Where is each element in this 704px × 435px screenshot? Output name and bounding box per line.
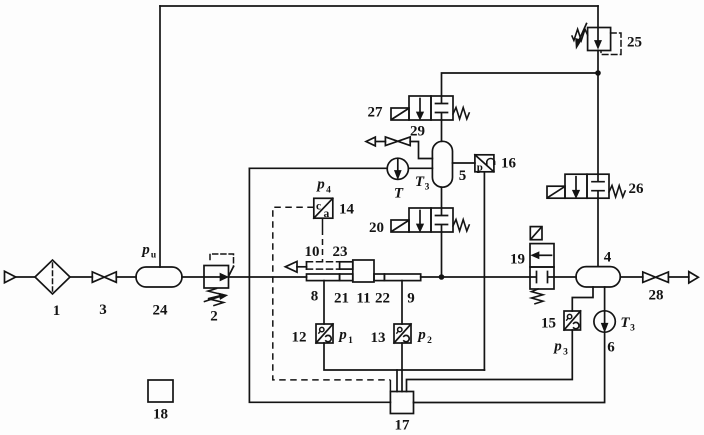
svg-text:25: 25 bbox=[627, 35, 642, 51]
transducer 15 bbox=[564, 311, 581, 330]
svg-text:17: 17 bbox=[395, 418, 411, 434]
svg-text:4: 4 bbox=[326, 186, 331, 196]
relief valve 25 bbox=[597, 6, 599, 28]
bleed valve 29 bbox=[385, 137, 410, 146]
inlet arrow bbox=[5, 271, 16, 282]
wire T-sense horizontal to gauge T bbox=[249, 167, 387, 169]
tube section 23 bbox=[340, 262, 353, 269]
valve 20 bbox=[409, 208, 431, 232]
transducer 13 bbox=[394, 324, 411, 343]
transducer 16 bbox=[475, 155, 494, 172]
wire valve 20 to main line bbox=[441, 232, 443, 277]
tube section 10 (dashed) bbox=[306, 262, 308, 269]
tube section 9 bbox=[384, 274, 420, 281]
wire vessel 5 to valve 20 bbox=[441, 187, 443, 208]
wire transducer 16 drop bbox=[483, 172, 485, 370]
node main line / valve 20 bbox=[439, 274, 445, 280]
svg-text:p: p bbox=[140, 242, 150, 258]
wire transducer 13 to DAQ 17 bbox=[401, 343, 403, 392]
vent arrow 10 bbox=[285, 261, 297, 272]
svg-text:a: a bbox=[324, 208, 330, 220]
dashed signal 14 enclosure bbox=[273, 207, 391, 380]
svg-text:29: 29 bbox=[410, 124, 425, 140]
wire thermometer 6 to DAQ 17 bbox=[414, 332, 605, 402]
wire valve 27 to vessel 5 bbox=[441, 120, 443, 141]
wire valve 19 to tank 4 bbox=[554, 276, 576, 278]
svg-text:3: 3 bbox=[630, 324, 635, 334]
wire vessel 5 to transducer 16 bbox=[453, 162, 475, 164]
dashed signal 14 to tube bbox=[322, 218, 324, 229]
svg-text:4: 4 bbox=[604, 250, 612, 266]
regulator 2 bbox=[204, 266, 229, 289]
svg-text:3: 3 bbox=[563, 348, 568, 358]
transducer 12 bbox=[316, 324, 333, 343]
svg-text:T: T bbox=[394, 186, 404, 202]
air tank 24 bbox=[136, 267, 182, 287]
wire tank 24 top riser bbox=[159, 6, 161, 267]
wire transducer 12 to DAQ 17 bbox=[324, 343, 484, 370]
wire T-sense riser (left vertical) bbox=[249, 168, 390, 402]
svg-text:c: c bbox=[316, 201, 321, 213]
svg-text:5: 5 bbox=[459, 168, 467, 184]
svg-text:18: 18 bbox=[153, 407, 168, 423]
wire top bus bbox=[160, 5, 598, 7]
wire gauge T to vessel 5 bbox=[408, 167, 432, 169]
svg-text:28: 28 bbox=[649, 288, 664, 304]
wire transducer 15 to DAQ 17 bbox=[407, 330, 573, 392]
wire inlet to filter bbox=[16, 276, 35, 278]
svg-text:6: 6 bbox=[607, 340, 615, 356]
svg-text:3: 3 bbox=[99, 302, 107, 318]
nozzle block 11 bbox=[353, 260, 374, 282]
wire valve 28 to outlet bbox=[668, 276, 688, 278]
wire regulator 2 to test tube bbox=[229, 276, 307, 278]
node pilot bus bbox=[595, 70, 601, 76]
wire valve 29 to vessel 5 bbox=[410, 142, 432, 159]
svg-text:p: p bbox=[416, 327, 426, 343]
svg-text:11: 11 bbox=[356, 291, 370, 307]
converter 14 bbox=[314, 198, 333, 218]
thermometer T bbox=[387, 158, 408, 179]
wire valve 26 to tank 4 bbox=[597, 198, 599, 266]
svg-text:23: 23 bbox=[333, 244, 348, 260]
svg-text:8: 8 bbox=[311, 289, 319, 305]
svg-text:T: T bbox=[415, 174, 425, 190]
valve 27 bbox=[409, 96, 431, 120]
svg-text:15: 15 bbox=[541, 316, 556, 332]
svg-text:19: 19 bbox=[510, 252, 525, 268]
outlet arrow bbox=[689, 272, 699, 283]
DAQ box 17 bbox=[390, 392, 413, 414]
vent arrow 29 bbox=[366, 137, 375, 146]
valve 28 bbox=[643, 272, 669, 282]
wire pilot bus node to valve 26 bbox=[597, 51, 599, 175]
svg-text:T: T bbox=[620, 315, 630, 331]
svg-text:10: 10 bbox=[305, 244, 320, 260]
svg-text:2: 2 bbox=[210, 309, 218, 325]
valve 19 bbox=[530, 244, 554, 267]
svg-text:1: 1 bbox=[348, 336, 353, 346]
svg-text:21: 21 bbox=[334, 291, 349, 307]
wire tank 4 to valve 28 bbox=[620, 276, 643, 278]
svg-text:16: 16 bbox=[501, 156, 517, 172]
wire tube tap 9 to transducer 13 bbox=[401, 281, 403, 324]
wire DAQ stub from p-bus bbox=[396, 370, 398, 392]
svg-text:p: p bbox=[552, 339, 562, 355]
svg-text:p: p bbox=[477, 161, 483, 173]
svg-text:p: p bbox=[315, 177, 325, 193]
tube section 21 bbox=[307, 274, 340, 281]
filter 1 bbox=[35, 260, 70, 294]
svg-text:12: 12 bbox=[292, 330, 307, 346]
valve 3 bbox=[92, 272, 116, 282]
tube section 22a bbox=[340, 274, 353, 281]
thermometer 6 bbox=[594, 311, 615, 332]
svg-text:9: 9 bbox=[407, 291, 415, 307]
svg-text:2: 2 bbox=[427, 336, 432, 346]
wire valve 3 to tank 24 bbox=[116, 276, 136, 278]
valve 26 bbox=[565, 174, 587, 198]
wire tank 4 to transducer 15 bbox=[572, 287, 593, 311]
vessel 5 bbox=[432, 141, 452, 187]
svg-text:13: 13 bbox=[371, 330, 386, 346]
tube section 22b bbox=[374, 274, 384, 281]
svg-text:3: 3 bbox=[425, 183, 430, 193]
svg-text:1: 1 bbox=[53, 303, 61, 319]
wire tank 24 to regulator 2 bbox=[182, 276, 204, 278]
svg-text:p: p bbox=[337, 327, 347, 343]
svg-text:u: u bbox=[151, 251, 157, 261]
svg-text:27: 27 bbox=[368, 105, 384, 121]
svg-text:24: 24 bbox=[153, 303, 169, 319]
svg-text:20: 20 bbox=[369, 220, 384, 236]
wire tube to valve 19 bbox=[421, 276, 530, 278]
svg-text:22: 22 bbox=[375, 291, 390, 307]
wire filter to valve 3 bbox=[70, 276, 92, 278]
svg-text:26: 26 bbox=[629, 181, 645, 197]
wire tank 4 to thermometer 6 bbox=[604, 287, 606, 311]
air tank 4 bbox=[576, 267, 620, 287]
wire tube tap 8 to transducer 12 bbox=[323, 281, 325, 324]
wire valve 27 top bbox=[442, 73, 599, 96]
svg-text:14: 14 bbox=[339, 202, 355, 218]
legend box 18 bbox=[148, 380, 173, 402]
